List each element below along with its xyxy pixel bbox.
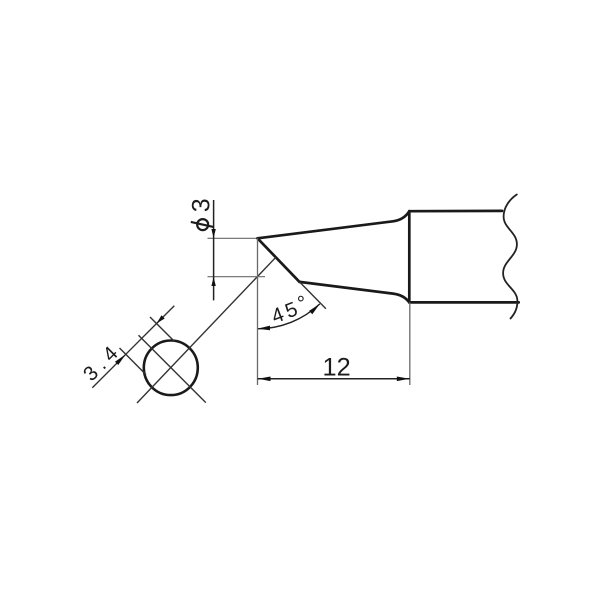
phi3 upper extension line: [208, 237, 257, 239]
break wave line: [503, 195, 517, 319]
3.4 dimension line: [92, 306, 174, 388]
arc left arrow: [258, 326, 271, 331]
12 dim extension line left: [257, 238, 259, 385]
tick line 2: [150, 317, 175, 342]
12 arrow right: [397, 377, 410, 382]
body bottom line: [409, 301, 518, 304]
tip top outline with fillet: [258, 211, 410, 238]
minor axis line: [139, 335, 206, 402]
label phi3: phi symbol: [197, 219, 208, 230]
12 arrow left: [258, 377, 271, 382]
body top line: [409, 210, 502, 213]
phi3 dimension line vertical: [213, 200, 215, 300]
phi3 arrow bottom: [211, 277, 215, 286]
bevel edge: [258, 238, 300, 282]
arc right arrow: [309, 304, 320, 314]
soldering tip main outline: [258, 211, 519, 303]
cone bottom outline with fillet: [300, 282, 410, 303]
45 degree arc: [258, 304, 320, 329]
3.4 arrow lower: [115, 354, 126, 365]
bevel extension line: [300, 282, 326, 309]
phi3 lower extension line: [208, 276, 266, 278]
body left edge: [408, 211, 411, 302]
svg-text:3: 3: [188, 198, 216, 212]
bevel face ellipse: [144, 341, 198, 396]
12 dimension line: [258, 378, 410, 380]
phi3 arrow top: [211, 229, 215, 238]
svg-text:12: 12: [323, 353, 351, 381]
3.4 arrow upper: [157, 315, 165, 323]
tick line 1: [120, 348, 147, 375]
12 dim extension line right: [409, 302, 411, 385]
major axis diagonal line: [137, 257, 276, 403]
